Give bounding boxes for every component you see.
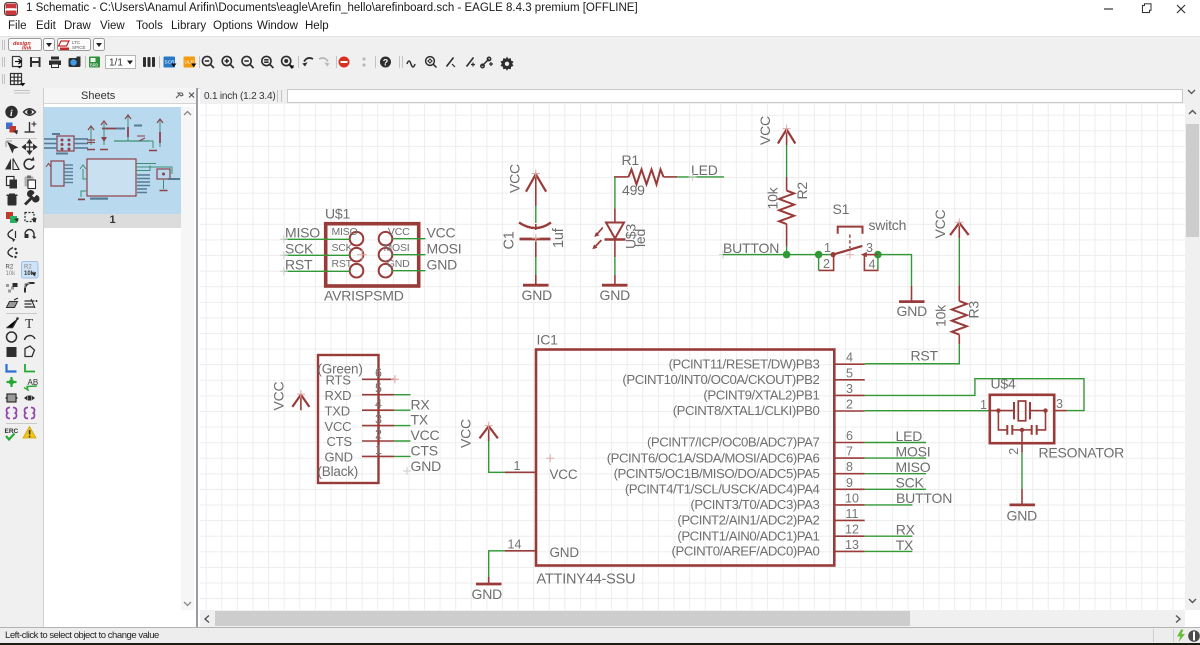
FTDI pin 2 stub (362, 440, 394, 442)
FTDI pin 3 stub (362, 425, 394, 427)
svg-text:VCC: VCC (411, 427, 440, 443)
svg-text:3: 3 (846, 382, 853, 396)
wire RST from pin 4 (865, 363, 960, 365)
wire VCC to R2 (786, 145, 788, 177)
ground below LED (602, 275, 628, 285)
U$4 internal node dot right (1043, 408, 1047, 412)
IC1 pin 4 stub (834, 363, 864, 365)
ground below IC1 pin 14 (476, 577, 502, 584)
IC1 pin 12 stub (834, 535, 864, 537)
svg-text:6: 6 (375, 366, 382, 380)
wire net GND right of U$1 (392, 270, 425, 272)
svg-text:(PCINT8/XTAL1/CLKI)PB0: (PCINT8/XTAL1/CLKI)PB0 (673, 403, 820, 418)
wire pin 3 to resonator right side (865, 379, 1084, 411)
LED emission arrow 2 (592, 240, 601, 249)
svg-text:13: 13 (845, 538, 859, 552)
row7: change / group (6, 212, 19, 223)
S1 left contact dot (831, 252, 836, 257)
wire U$4 pin 2 to GND (1021, 453, 1023, 489)
RST label origin cross (280, 267, 288, 275)
svg-text:GND: GND (600, 287, 631, 303)
svg-text:GND: GND (1007, 507, 1038, 523)
svg-text:TX: TX (896, 537, 914, 553)
svg-text:GND: GND (325, 450, 353, 465)
svg-text:switch: switch (869, 217, 907, 233)
S1 pin 2 hook (819, 256, 834, 271)
svg-text:AVRISPSMD: AVRISPSMD (324, 288, 404, 304)
wire IC1 pin 14 to GND (489, 551, 505, 577)
ground below U$4 (1010, 489, 1036, 505)
GND label origin cross at FTDI (403, 467, 411, 475)
row15: rect / polygon (7, 347, 17, 357)
wire VCC to IC1 pin 1 (489, 441, 505, 472)
svg-text:GND: GND (897, 303, 928, 319)
ground below C1 (523, 275, 549, 285)
svg-text:VCC: VCC (932, 209, 948, 238)
S1 pin 4 hook (864, 256, 878, 271)
U$4 pin 3 stub (1054, 410, 1066, 412)
mini resonator (150, 167, 180, 191)
svg-text:R2: R2 (24, 265, 32, 271)
svg-text:VCC: VCC (550, 467, 578, 482)
wire VCC to R3 (958, 238, 960, 285)
U$4 center node dot (1020, 428, 1024, 432)
wire net RST left (284, 270, 350, 272)
svg-text:RTS: RTS (326, 373, 352, 388)
IC1 origin cross (546, 454, 554, 462)
svg-text:4: 4 (869, 257, 876, 271)
svg-text:1: 1 (375, 443, 382, 457)
mini R1/LED (100, 121, 125, 150)
U$1 pin circle VCC (379, 232, 393, 246)
IC1 pin 9 stub (834, 488, 864, 490)
svg-text:CTS: CTS (411, 443, 438, 459)
row5: copy / paste (7, 177, 18, 189)
supply VCC at IC1 pin 1 (480, 422, 498, 441)
row4: mirror / rotate (5, 159, 19, 170)
wire net SCK (284, 254, 350, 256)
svg-text:RST: RST (911, 348, 939, 364)
row10: name / value(selected) (6, 265, 17, 278)
row18: dimension / pinswap (5, 394, 18, 402)
svg-text:(PCINT3/T0/ADC3)PA3: (PCINT3/T0/ADC3)PA3 (690, 497, 819, 512)
svg-text:2: 2 (375, 428, 382, 442)
svg-text:R3: R3 (966, 301, 982, 319)
svg-text:5: 5 (375, 381, 382, 395)
row8: cut / paste-arrow (8, 230, 16, 243)
svg-text:RST: RST (332, 258, 353, 270)
row2: layers / mark (6, 123, 18, 135)
S1 pin 3 stub (867, 254, 878, 256)
svg-text:MISO: MISO (332, 226, 358, 238)
ground below S1 (899, 286, 925, 302)
svg-text:(PCINT4/T1/SCL/USCK/ADC4)PA4: (PCINT4/T1/SCL/USCK/ADC4)PA4 (625, 482, 820, 497)
svg-text:BUTTON: BUTTON (896, 490, 952, 506)
S1 lever (833, 246, 862, 255)
LED U$3 (605, 208, 626, 257)
U$4 crystal plates (990, 401, 1046, 421)
svg-text:2: 2 (1007, 448, 1021, 455)
svg-text:VCC: VCC (507, 164, 523, 193)
wire net SCK from pin 9 (865, 488, 926, 490)
svg-text:TX: TX (411, 412, 429, 428)
svg-text:(Black): (Black) (318, 464, 359, 479)
svg-text:link: link (22, 46, 32, 52)
wire net MISO from pin 8 (865, 473, 926, 475)
IC1 pin 10 stub (834, 504, 864, 506)
svg-text:led: led (632, 229, 648, 247)
wire S1 to GND corner (878, 255, 912, 286)
svg-text:SCK: SCK (332, 242, 353, 254)
U$1 origin cross (357, 250, 367, 260)
svg-text:(PCINT10/INT0/OC0A/CKOUT)PB2: (PCINT10/INT0/OC0A/CKOUT)PB2 (622, 372, 819, 387)
LED emission arrow 1 (594, 228, 603, 237)
svg-text:5: 5 (846, 366, 853, 380)
svg-text:(PCINT11/RESET/DW)PB3: (PCINT11/RESET/DW)PB3 (669, 356, 820, 371)
svg-text:R2: R2 (794, 182, 810, 200)
svg-text:MOSI: MOSI (896, 443, 931, 459)
junction at S1 pin 3/4 (874, 251, 882, 259)
svg-text:CTS: CTS (327, 434, 353, 449)
wire R1 down to LED anode (614, 177, 616, 209)
U$4 right internal capacitor (1022, 411, 1046, 435)
svg-text:9: 9 (846, 476, 853, 490)
IC1 pin 5 stub (834, 379, 864, 381)
svg-text:VCC: VCC (325, 419, 352, 434)
U$1 pin circle MOSI (379, 248, 393, 262)
svg-text:SPICE: SPICE (72, 45, 86, 50)
svg-text:C1: C1 (502, 231, 518, 249)
svg-text:1: 1 (980, 398, 987, 412)
wire net VCC from FTDI (394, 425, 411, 427)
IC1 pin 8 stub (834, 473, 864, 475)
U$4 left internal capacitor (998, 411, 1022, 435)
wire R2 to BUTTON net (786, 246, 788, 254)
capacitor C1 (519, 223, 551, 258)
resistor R1 (614, 169, 677, 184)
junction at S1 pin 1/2 (815, 251, 823, 259)
IC1 pin 14 stub (505, 550, 536, 552)
svg-text:IC1: IC1 (537, 332, 559, 348)
IC1 pin 2 stub (834, 410, 864, 412)
svg-text:2: 2 (846, 398, 853, 412)
svg-text:GND: GND (387, 258, 410, 270)
svg-text:VCC: VCC (458, 419, 474, 448)
svg-text:3: 3 (375, 412, 382, 426)
FTDI pin 1 stub (362, 455, 394, 457)
wire net VCC right of U$1 (392, 238, 425, 240)
wire R3 to RST net (865, 344, 960, 364)
svg-text:4: 4 (375, 397, 382, 411)
svg-text:MOSI: MOSI (427, 241, 462, 257)
wire pin 2 to resonator pin 1 (865, 410, 990, 412)
svg-text:TXD: TXD (325, 403, 350, 418)
svg-text:MISO: MISO (285, 225, 320, 241)
connector U$1 body (326, 224, 419, 286)
wire net RX from FTDI (394, 394, 411, 396)
U$1 pin circle SCK (350, 248, 364, 262)
row16: bus / net (7, 364, 17, 372)
U$1 pin circle GND (379, 264, 393, 278)
IC1 pin 3 stub (834, 394, 864, 396)
wire VCC to C1 (535, 206, 537, 223)
svg-text:(PCINT9/XTAL2)PB1: (PCINT9/XTAL2)PB1 (703, 388, 819, 403)
row19: attribute tools (7, 408, 17, 419)
row12: polygon-split / ratsnest (7, 298, 19, 308)
svg-text:10: 10 (845, 491, 859, 505)
supply VCC above R2 (778, 125, 795, 145)
row20: erc / errors (5, 428, 19, 440)
svg-text:2: 2 (823, 257, 830, 271)
mini switch cluster (114, 115, 163, 151)
mini U$1 (44, 133, 88, 155)
svg-text:?: ? (383, 57, 389, 67)
wire LED to GND (614, 257, 616, 275)
svg-text:SCK: SCK (285, 241, 314, 257)
svg-text:GND: GND (522, 287, 553, 303)
FTDI pin 4 stub (362, 409, 394, 411)
svg-text:i: i (10, 109, 13, 119)
wire net BUTTON from pin 10 (865, 504, 913, 506)
IC1 pin 6 stub (834, 442, 864, 444)
MISO label origin cross (280, 235, 288, 243)
supply VCC left of FTDI (292, 390, 309, 410)
svg-text:RESONATOR: RESONATOR (1039, 444, 1125, 460)
SCK label origin cross (280, 251, 288, 259)
FTDI pin 5 stub (362, 394, 394, 396)
svg-text:R1: R1 (622, 152, 640, 168)
mini VCC/C1 (87, 126, 95, 150)
row9: change-curve (8, 248, 18, 259)
svg-text:BRD: BRD (90, 63, 98, 69)
FTDI connector body (318, 355, 379, 483)
svg-text:7: 7 (846, 445, 853, 459)
U$1 pin circle RST (350, 264, 364, 278)
svg-text:U$1: U$1 (325, 206, 350, 222)
svg-text:14: 14 (508, 538, 522, 552)
wire C1 to GND (535, 257, 537, 275)
supply VCC above C1 (526, 170, 546, 207)
row13: wire / text (7, 317, 19, 327)
svg-text:MISO: MISO (896, 459, 931, 475)
svg-text:VCC: VCC (388, 226, 410, 238)
row14: circle / arc (7, 332, 17, 342)
svg-text:GND: GND (472, 586, 503, 602)
svg-text:1: 1 (824, 241, 831, 255)
BUTTON label origin cross (719, 251, 727, 259)
svg-text:VCC: VCC (757, 116, 773, 145)
mini FTDI (46, 161, 73, 186)
svg-text:(PCINT6/OC1A/SDA/MOSI/ADC6)PA6: (PCINT6/OC1A/SDA/MOSI/ADC6)PA6 (607, 450, 820, 465)
svg-text:8: 8 (846, 460, 853, 474)
S1 actuator bracket (838, 227, 863, 234)
IC1 pin 7 stub (834, 457, 864, 459)
svg-text:RST: RST (285, 257, 313, 273)
svg-text:4: 4 (846, 351, 853, 365)
svg-text:499: 499 (622, 182, 645, 198)
row6: delete / wrench (7, 194, 18, 206)
svg-text:(PCINT7/ICP/OC0B/ADC7)PA7: (PCINT7/ICP/OC0B/ADC7)PA7 (647, 435, 820, 450)
U$4 internal node dot left (996, 408, 1000, 412)
svg-text:12: 12 (845, 523, 859, 537)
IC1 pin 11 stub (834, 519, 864, 521)
svg-text:T: T (25, 316, 34, 331)
IC1 pin 13 stub (834, 550, 864, 552)
wire net RX from pin 12 (865, 535, 913, 537)
wire net MOSI from pin 7 (865, 457, 926, 459)
svg-text:10k: 10k (6, 271, 17, 277)
zoom icons (202, 56, 293, 68)
svg-text:ATTINY44-SSU: ATTINY44-SSU (537, 572, 636, 588)
svg-text:ERC: ERC (5, 428, 19, 435)
svg-text:3: 3 (1056, 397, 1063, 411)
S1 pin 4 hook wire (877, 255, 879, 271)
wire net LED from pin 6 (865, 442, 926, 444)
row11: smash / miter (6, 283, 18, 293)
svg-text:VCC: VCC (271, 381, 287, 410)
S1 pin 2 hook wire (818, 255, 820, 271)
junction at R2 bottom (783, 251, 791, 259)
svg-text:MOSI: MOSI (383, 242, 409, 254)
svg-text:R2: R2 (6, 265, 14, 271)
svg-text:(PCINT5/OC1B/MISO/DO/ADC5)PA5: (PCINT5/OC1B/MISO/DO/ADC5)PA5 (614, 466, 820, 481)
resonator U$4 body (990, 395, 1054, 443)
svg-text:SCK: SCK (896, 475, 925, 491)
row1: info / show (5, 106, 17, 118)
row3: select / move (6, 141, 19, 154)
IC1 body (536, 350, 834, 566)
supply VCC above R3 (950, 218, 969, 238)
svg-text:RX: RX (896, 522, 916, 538)
wire net TX from pin 13 (865, 550, 913, 552)
svg-text:(PCINT0/AREF/ADC0)PA0: (PCINT0/AREF/ADC0)PA0 (672, 544, 820, 559)
svg-text:VCC: VCC (427, 225, 456, 241)
S1 actuator dashed stem (849, 235, 851, 249)
wire net MISO (284, 238, 350, 240)
svg-text:3: 3 (866, 241, 873, 255)
svg-text:U$4: U$4 (991, 376, 1016, 392)
U$4 pin 2 stub (1021, 430, 1023, 453)
wire R1 to LED net label (677, 176, 724, 178)
svg-text:S1: S1 (833, 201, 850, 217)
svg-text:11: 11 (846, 507, 859, 521)
svg-text:10k: 10k (933, 304, 949, 327)
svg-text:LED: LED (691, 162, 718, 178)
svg-text:1uf: 1uf (551, 227, 567, 248)
resistor R3 (952, 285, 967, 344)
wire net MOSI right of U$1 (392, 254, 425, 256)
svg-text:GND: GND (411, 458, 442, 474)
FTDI pin 6 stub (362, 378, 394, 380)
mini IC1 (78, 159, 164, 200)
FTDI pin 6 open end cross (391, 375, 399, 383)
S1 origin cross (846, 251, 854, 259)
svg-text:RX: RX (411, 396, 431, 412)
LED label origin cross (689, 173, 697, 181)
svg-text:GND: GND (550, 545, 580, 560)
svg-text:10k: 10k (765, 186, 781, 209)
wire BUTTON net horizontal (723, 254, 833, 256)
svg-text:BUTTON: BUTTON (723, 240, 779, 256)
U$1 pin circle MISO (350, 232, 364, 246)
svg-text:GND: GND (427, 257, 458, 273)
row17: junction / label (7, 377, 17, 387)
IC1 pin 1 stub (505, 471, 536, 473)
svg-text:RXD: RXD (325, 388, 352, 403)
svg-text:6: 6 (846, 429, 853, 443)
resistor R2 (779, 177, 794, 246)
svg-text:1: 1 (514, 459, 521, 473)
wire net GND from FTDI (394, 455, 411, 457)
wire net CTS from FTDI (394, 440, 411, 442)
wire net TX from FTDI (394, 409, 411, 411)
S1 right contact arrow (861, 252, 867, 257)
svg-text:(PCINT2/AIN1/ADC2)PA2: (PCINT2/AIN1/ADC2)PA2 (677, 513, 819, 528)
svg-text:(PCINT1/AIN0/ADC1)PA1: (PCINT1/AIN0/ADC1)PA1 (677, 528, 819, 543)
svg-text:1/1: 1/1 (109, 58, 123, 69)
svg-text:LED: LED (896, 428, 923, 444)
